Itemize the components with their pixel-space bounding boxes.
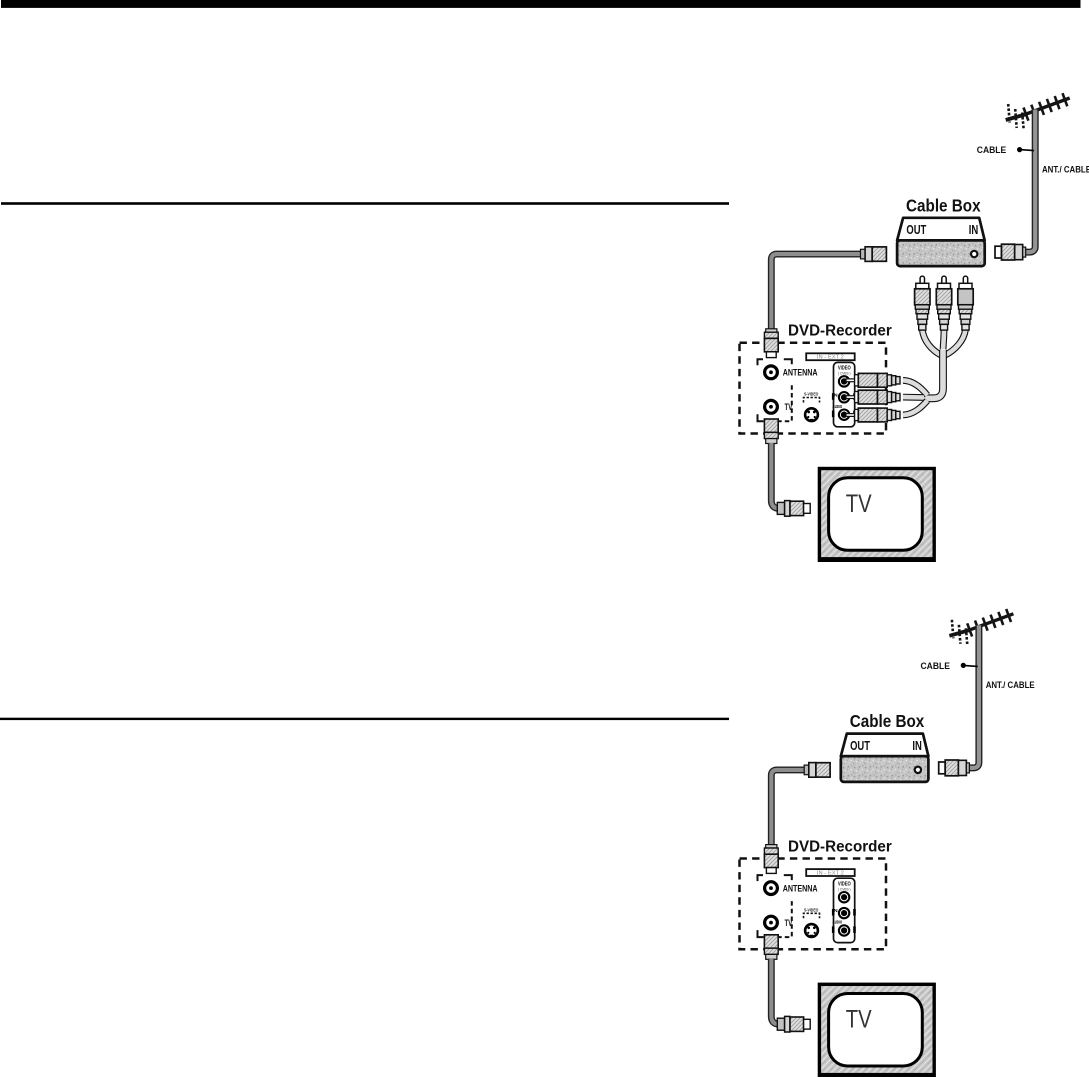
- VIDEO jack 1: [839, 376, 849, 386]
- F-connector into TV 1: [777, 501, 810, 517]
- svg-text:IN - EXT 2: IN - EXT 2: [817, 871, 844, 877]
- antenna 1: [1006, 93, 1070, 130]
- TV set 2: [819, 984, 934, 1076]
- L R tick marks 1: [832, 393, 856, 417]
- F-connector into cable box IN 2: [939, 760, 970, 776]
- svg-text:DVD-Recorder: DVD-Recorder: [788, 323, 892, 340]
- svg-text:ANT./ CABLE: ANT./ CABLE: [986, 680, 1035, 691]
- svg-text:( CVBS ): ( CVBS ): [838, 887, 851, 891]
- ANTENNA jack 2: [765, 882, 778, 895]
- F-connector into ANTENNA jack 2: [764, 845, 778, 874]
- AV cable white branch top: [940, 330, 948, 350]
- L R tick marks 2: [832, 909, 856, 933]
- cable box 1 body: [897, 218, 985, 241]
- F-connector into ANTENNA jack 1: [764, 329, 778, 358]
- svg-text:AUDIO: AUDIO: [833, 920, 843, 925]
- RCA plug into jack 2: [846, 390, 900, 404]
- svg-text:TV: TV: [846, 1006, 872, 1034]
- CABLE pointer 1: [1017, 147, 1022, 152]
- TV cable 1: [771, 443, 780, 508]
- antenna/tv jack bracket 2: [758, 875, 792, 937]
- IN-EXT2 strip 2: [806, 869, 855, 876]
- AV jack group 1: [834, 362, 855, 426]
- cable box 2 indicator: [915, 767, 921, 773]
- svg-text:DVD-Recorder: DVD-Recorder: [788, 838, 892, 855]
- svg-text:ANT./ CABLE: ANT./ CABLE: [1042, 164, 1089, 175]
- S-VIDEO bracket 1: [804, 398, 820, 403]
- cable box OUT cable 1: [771, 254, 861, 330]
- F-connector below TV jack 1: [764, 419, 778, 444]
- RCA plug into jack 3: [846, 408, 900, 422]
- TV screen 1: [829, 478, 923, 551]
- F-connector into cable box IN 1: [995, 244, 1026, 260]
- svg-text:TV: TV: [846, 490, 872, 518]
- AV cable red branch bottom: [903, 401, 927, 415]
- antenna drop cable 2: [969, 625, 979, 768]
- svg-text:OUT: OUT: [850, 738, 870, 753]
- DVD-Recorder 2 dashed outline: [740, 859, 887, 950]
- AV cable white branch bottom: [903, 394, 924, 401]
- TV cable 2: [771, 959, 780, 1024]
- svg-text:Cable Box: Cable Box: [906, 195, 981, 215]
- antenna drop cable 1: [1025, 110, 1035, 253]
- RCA plug into jack 1: [846, 373, 900, 387]
- page header bar: [1, 0, 1081, 8]
- F-connector from cable box OUT 2: [804, 763, 830, 778]
- cable box 1 indicator: [971, 251, 977, 257]
- AV cable yellow branch top: [922, 330, 941, 356]
- antenna/tv jack bracket 1: [758, 359, 792, 421]
- AV cable bundle: [923, 350, 944, 398]
- RCA plug up 3: [958, 276, 973, 330]
- AUDIO R jack 2: [839, 925, 849, 935]
- S-VIDEO connector 2: [805, 924, 818, 937]
- AUDIO L jack 1: [839, 392, 849, 402]
- AUDIO R jack 1: [839, 410, 849, 420]
- svg-text:TV: TV: [785, 402, 793, 412]
- svg-text:IN: IN: [969, 222, 979, 237]
- cable box 2 body: [841, 734, 929, 757]
- AV cable yellow branch bottom: [903, 380, 927, 395]
- svg-text:CABLE: CABLE: [921, 661, 951, 672]
- svg-text:( CVBS ): ( CVBS ): [838, 372, 851, 376]
- S-VIDEO connector 1: [805, 408, 818, 421]
- F-connector into TV 2: [777, 1016, 810, 1032]
- antenna 2: [949, 609, 1013, 646]
- svg-text:TV: TV: [785, 918, 793, 928]
- CABLE pointer 2: [961, 663, 966, 668]
- ANTENNA jack 1: [765, 366, 778, 379]
- svg-text:AUDIO: AUDIO: [833, 404, 843, 409]
- F-connector below TV jack 2: [764, 935, 778, 960]
- RCA plug up 2: [936, 276, 951, 330]
- RCA plug up 1: [915, 276, 930, 330]
- AV jack group 2: [834, 878, 855, 942]
- section rule 1: [1, 202, 729, 205]
- svg-text:ANTENNA: ANTENNA: [783, 368, 818, 378]
- svg-text:S-VIDEO: S-VIDEO: [804, 907, 819, 912]
- F-connector from cable box OUT 1: [861, 247, 887, 262]
- svg-text:IN - EXT 2: IN - EXT 2: [817, 355, 844, 361]
- AUDIO L jack 2: [839, 908, 849, 918]
- AV cable red branch top: [945, 330, 966, 356]
- S-VIDEO bracket 2: [804, 913, 820, 918]
- TV jack 1: [765, 400, 778, 413]
- IN-EXT2 strip 1: [806, 353, 855, 360]
- section rule 2: [0, 718, 729, 720]
- svg-text:Cable Box: Cable Box: [850, 711, 925, 731]
- TV screen 2: [829, 994, 923, 1067]
- svg-text:OUT: OUT: [906, 222, 926, 237]
- cable box OUT cable 2: [771, 770, 805, 846]
- TV jack 2: [765, 916, 778, 929]
- TV set 1: [819, 469, 934, 561]
- svg-text:CABLE: CABLE: [977, 145, 1007, 156]
- VIDEO jack 2: [839, 892, 849, 902]
- svg-text:IN: IN: [912, 738, 922, 753]
- svg-text:ANTENNA: ANTENNA: [783, 883, 818, 893]
- DVD-Recorder 1 dashed outline: [740, 343, 887, 434]
- svg-text:S-VIDEO: S-VIDEO: [804, 392, 819, 397]
